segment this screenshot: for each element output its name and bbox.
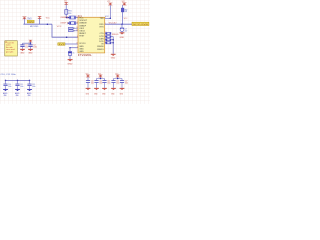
wire 5V net horizontal [23,23,52,25]
svg-text:600: 600 [68,13,71,15]
svg-text:VCC: VCC [57,26,62,28]
svg-text:GND: GND [120,37,125,39]
wire row2 [68,22,78,24]
svg-text:GND: GND [16,95,19,97]
wire group3 [114,77,123,80]
capacitor C10 [5,80,7,83]
resistor R2 series [70,22,76,25]
resistor R5 row (cbus1) [105,36,106,38]
wire GND pin row [70,47,78,49]
ground under C4 [28,49,33,51]
svg-text:GND: GND [28,95,31,97]
capacitor C15 [102,79,106,82]
svg-text:GND: GND [68,64,73,66]
net label box 3V3 (row 5) [58,43,65,46]
svg-text:GND: GND [79,51,84,53]
net label box VCC-5V [132,22,149,25]
capacitor C5 (osc row upper) [69,27,74,29]
svg-text:VCC-5V0: VCC-5V0 [133,24,149,26]
resistor R6 row (cbus2) [105,39,106,41]
svg-text:C12: C12 [32,84,35,86]
power symbol VCC col 1 [108,3,113,6]
svg-text:RTS: RTS [100,26,105,28]
svg-text:17: 17 [76,43,78,45]
svg-text:C16: C16 [116,80,119,82]
wire stem +5V to net [23,19,25,24]
svg-text:TEST: TEST [79,36,85,38]
ground under C17 [120,88,125,90]
junction node on VCC wire [66,36,68,38]
capacitor C6 (osc row lower) [69,30,74,32]
svg-text:27: 27 [76,30,78,32]
svg-text:20: 20 [76,16,78,18]
svg-text:100n: 100n [116,82,119,84]
ferrite bead FB2 [121,8,124,12]
svg-text:C17: C17 [125,80,128,82]
svg-text:C10, C11 100n: C10, C11 100n [1,74,17,76]
junction node [30,42,32,44]
wire C3 C4 top [23,42,31,44]
svg-text:C14: C14 [99,80,102,82]
junction node [66,17,68,19]
junction node [117,78,119,80]
capacitor C13 [87,77,89,80]
power symbol +5V (top middle left) [22,17,27,20]
ground GND under C9 [120,32,125,34]
capacitor C4 [30,43,32,44]
svg-text:FT232RL: FT232RL [78,53,93,57]
wire bottom-left cap rail [6,79,30,81]
capacitor C9 polarized [120,27,124,30]
svg-text:100n: 100n [8,86,11,88]
ground under C15 [102,88,107,90]
resistor R7 row (cbus3) [105,42,106,44]
svg-text:C10: C10 [8,84,11,86]
svg-text:C11: C11 [20,84,23,86]
svg-text:GND: GND [4,95,7,97]
svg-text:GND: GND [20,53,25,55]
svg-text:C9: C9 [125,29,127,31]
junction node [112,39,114,41]
wire VCCIO net horizontal [105,23,132,25]
svg-text:100n: 100n [99,82,102,84]
svg-text:15: 15 [76,27,78,29]
power symbol VCC bank group2 [98,75,103,78]
svg-text:1k: 1k [73,53,75,55]
junction node [69,47,71,49]
capacitor C3 [22,43,24,44]
wire row5 [65,43,78,45]
svg-text:TXD: TXD [100,18,105,20]
wire stem VCC to net [39,19,41,25]
ground AGND under C10 [3,89,8,91]
wire corner down [52,24,78,37]
wire R3 to ground [69,55,71,59]
power symbol VCC above FB1 [64,2,68,4]
resistor R1 series [70,16,76,19]
IC IC1 FT232RL body [78,17,105,53]
power symbol VCC col 2 [122,3,127,6]
ground AGND under C11 [15,89,20,91]
svg-text:wire: wire [6,45,11,47]
junction node [5,80,7,82]
svg-text:4u7: 4u7 [125,30,128,32]
svg-text:RXLED: RXLED [112,34,119,36]
junction node [121,23,123,25]
wire group2 [97,77,105,80]
svg-text:USBDP: USBDP [60,23,67,25]
svg-text:600: 600 [125,11,128,13]
svg-text:C13: C13 [91,80,94,82]
svg-text:100n: 100n [20,86,23,88]
pin names right column [97,18,105,51]
power symbol VCC bank group3 [115,75,120,78]
ground GND [68,59,73,61]
ferrite bead FB1 [65,10,68,15]
svg-text:100n: 100n [107,82,110,84]
svg-text:USBDM: USBDM [60,17,67,19]
svg-text:conn and: conn and [6,49,15,51]
svg-text:5V0: 5V0 [28,21,33,23]
wire FB2 down [121,12,124,24]
svg-text:C15: C15 [107,80,110,82]
pin numbers left [76,16,78,48]
power symbol VCC bank col1 [86,75,91,78]
wire FB1 to VCC pin [66,14,78,17]
wire down to R3 [69,48,71,52]
pin names left column [79,18,88,54]
svg-text:16: 16 [76,22,78,24]
svg-text:FB2: FB2 [125,9,128,11]
wire vertical to ground [112,37,114,54]
junction node [29,80,31,82]
svg-text:100n: 100n [91,82,94,84]
svg-text:VCCIO: VCCIO [109,22,117,24]
pin numbers right [105,17,107,44]
svg-text:100n: 100n [125,82,128,84]
svg-text:GND: GND [111,57,116,59]
ground AGND under C12 [27,89,32,91]
power symbol VCC above C3/C4 [28,40,32,42]
svg-text:CBUS1: CBUS1 [97,49,105,51]
junction node [47,23,49,25]
junction node [110,18,112,20]
power symbol VCC (top middle) [37,16,42,19]
capacitor C14 [94,79,98,82]
svg-text:100n: 100n [32,86,35,88]
ground under C13 [86,88,91,90]
svg-text:3V3: 3V3 [58,44,64,46]
svg-text:100n: 100n [33,47,37,49]
junction node [100,78,102,80]
junction node [112,42,114,44]
junction node [17,80,19,82]
resistor R4 row (cbus0) [105,33,106,35]
resistor R3 [68,52,71,56]
ground under C3 [20,49,25,51]
wire VCC col1 down to pin [105,5,111,18]
capacitor C17 [120,79,124,82]
svg-text:VCC: VCC [46,18,51,20]
note box [5,41,17,56]
svg-text:GND: GND [28,53,33,55]
svg-text:MIC5205: MIC5205 [30,26,39,28]
wire C9 to ground [121,31,123,34]
svg-text:pwr pln: pwr pln [6,52,14,54]
svg-text:10n: 10n [25,47,28,49]
ground GND under resistors [111,54,116,56]
wire VCC to FB1 [65,5,67,10]
wire down to C9 [121,24,123,28]
ground under C16 [111,88,116,90]
capacitor C12 [29,80,31,83]
net label box 5V [27,20,34,23]
wire VCC col2 to FB2 [122,5,124,8]
ground under C14 [94,88,99,90]
capacitor C16 [111,79,115,82]
capacitor C11 [17,80,19,83]
